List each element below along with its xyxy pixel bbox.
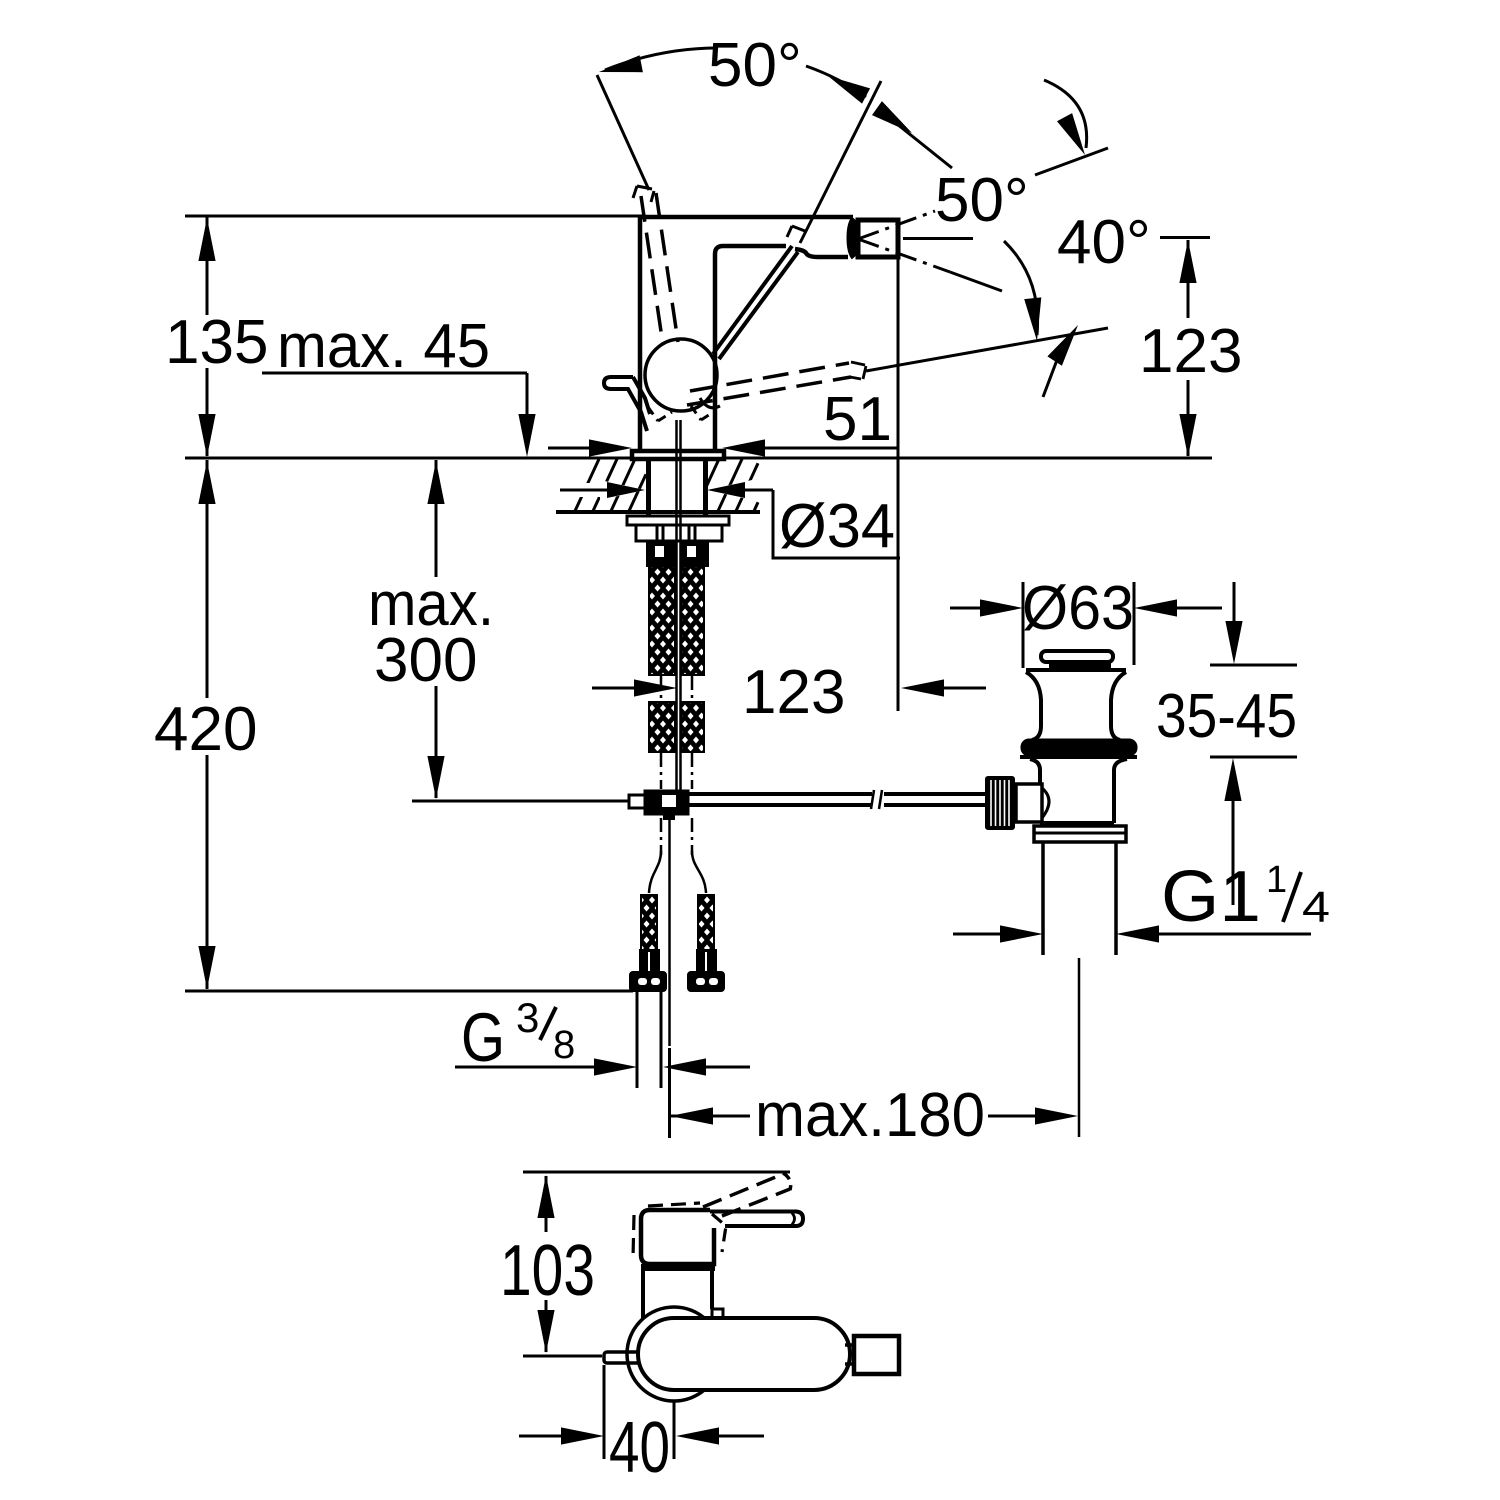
svg-text:300: 300 <box>374 626 477 695</box>
T-connector block <box>645 791 688 814</box>
dim 103 <box>545 1176 548 1232</box>
valve bell top plate <box>1026 668 1126 672</box>
bowtie arrowhead down-right <box>872 101 912 133</box>
spray horizontal axis line <box>903 237 973 240</box>
svg-text:50°: 50° <box>708 31 802 100</box>
spray head rectangle <box>858 220 898 257</box>
spray-down dash-dot line <box>858 239 950 272</box>
svg-text:123: 123 <box>742 658 845 727</box>
40 degree small up arrow <box>1047 325 1078 366</box>
svg-text:G1: G1 <box>1161 857 1261 937</box>
valve body bottom coupling <box>1040 821 1114 825</box>
lever rod lower arc detail <box>700 398 720 408</box>
svg-text:50°: 50° <box>935 166 1029 235</box>
bottom view: dashed handle rod <box>703 1174 783 1207</box>
svg-text:123: 123 <box>1139 317 1242 386</box>
first 50 degree arc right part <box>806 66 866 97</box>
drain tailpipe G1 1/4 <box>1041 842 1045 955</box>
dim 51 (flange width) <box>548 447 594 450</box>
G3/8 threaded pipe <box>636 991 639 1088</box>
lower hose collars <box>640 950 659 973</box>
valve bell body <box>1026 672 1041 740</box>
40 degree arc <box>1004 241 1038 335</box>
rubber seal O-ring <box>1022 740 1136 755</box>
T-connector left cap <box>629 795 645 808</box>
dashed lever down cap <box>850 362 866 379</box>
solid lever axis extension <box>800 81 881 243</box>
bottom view: stadium body <box>638 1318 850 1390</box>
bottom view lower extension line <box>523 1355 602 1358</box>
svg-text:40: 40 <box>609 1408 670 1488</box>
horizontal pop-up rod <box>688 792 872 796</box>
dim G1 1/4 <box>953 933 1004 936</box>
faucet body outline <box>640 217 853 452</box>
bottom view: solid spout rod <box>710 1212 803 1227</box>
bottom view top extension line <box>523 1171 790 1174</box>
side port body <box>1016 784 1042 822</box>
spray-up dash-dot line <box>858 211 935 239</box>
bottom reference line (420 end) <box>185 990 633 993</box>
svg-text:420: 420 <box>154 695 257 764</box>
braided hose second section right <box>681 702 704 752</box>
base flange <box>632 451 724 459</box>
down-lever axis extension <box>866 328 1108 371</box>
svg-text:51: 51 <box>823 385 892 454</box>
bottom view: thick separator bar <box>641 1264 715 1271</box>
dim G 3/8 <box>455 1066 599 1069</box>
bottom view: handle cartridge solid box <box>641 1210 714 1264</box>
pull rod between hoses <box>675 420 678 791</box>
dim max.180 <box>668 1048 671 1138</box>
knurled knob <box>986 777 1014 829</box>
pivot ball <box>645 339 717 411</box>
bottom view: outlet neck <box>845 1343 856 1347</box>
svg-text:max.180: max.180 <box>755 1081 985 1150</box>
dashed lever (down position) <box>690 363 849 391</box>
hose centerline dash-dots in gap <box>660 676 663 700</box>
flange below seal <box>1020 755 1137 759</box>
bottom view: cartridge dashed offset outline <box>648 1203 700 1206</box>
counter bottom line <box>556 510 760 514</box>
dim 135 <box>206 217 209 315</box>
bottom view: right step <box>712 1309 723 1320</box>
dashed lever (up position) <box>641 196 663 345</box>
dim 123 horizontal <box>592 687 640 690</box>
locknut <box>636 525 722 541</box>
hose end nuts G3/8 <box>630 972 666 991</box>
dim 420 <box>206 460 209 698</box>
lower braided hose left <box>641 895 657 953</box>
braided hose upper left <box>649 566 675 675</box>
braided hose second section left <box>649 702 675 752</box>
dim diameter 63 <box>1022 582 1025 668</box>
shank <box>646 458 651 516</box>
dim max. 300 <box>435 460 438 577</box>
bottom view: left nib <box>604 1352 640 1363</box>
dim 40 <box>603 1365 606 1459</box>
svg-text:Ø63: Ø63 <box>1022 574 1134 643</box>
second 50 degree arc right segment <box>1044 80 1087 148</box>
svg-text:35-45: 35-45 <box>1156 682 1297 751</box>
hose curves to lower braids <box>649 851 661 893</box>
counter top line <box>185 457 1212 460</box>
braided hose upper right <box>681 566 704 675</box>
temperature stop hook on body left <box>604 377 647 431</box>
svg-text:max. 45: max. 45 <box>277 312 490 381</box>
dim diameter 34 <box>558 483 614 497</box>
spout underside step <box>795 249 848 257</box>
bottom view: rear circle <box>627 1307 721 1401</box>
bottom view: outlet square <box>854 1336 899 1374</box>
svg-text:1: 1 <box>1266 859 1287 901</box>
counter hatching <box>575 459 599 511</box>
svg-text:135: 135 <box>165 308 268 377</box>
lower braided hose right <box>698 895 714 953</box>
centerline below T-connector <box>668 818 671 1046</box>
hose crimp fittings <box>647 542 676 566</box>
svg-text:3: 3 <box>516 994 539 1041</box>
lever tip dash-dot cap <box>787 226 805 237</box>
aerator crescent <box>848 218 861 258</box>
T-connector bottom stub <box>664 814 674 819</box>
washer <box>627 516 729 525</box>
svg-text:8: 8 <box>553 1023 575 1067</box>
drain centerline <box>1078 958 1081 1137</box>
svg-text:4: 4 <box>1302 883 1330 932</box>
bottom view: body column <box>641 1271 645 1318</box>
svg-text:G: G <box>461 999 505 1076</box>
hose centerlines below second braid <box>660 753 663 789</box>
solid lever rod <box>713 246 792 354</box>
top reference line (spout top level) <box>185 215 645 218</box>
dashed lever up cap <box>633 186 654 202</box>
up-lever axis extension line <box>597 75 649 190</box>
dashed chevron marks below ball <box>648 407 672 421</box>
svg-text:40°: 40° <box>1057 208 1151 277</box>
svg-text:Ø34: Ø34 <box>779 492 895 561</box>
dim 35-45 <box>1233 582 1236 624</box>
svg-text:103: 103 <box>500 1231 595 1311</box>
first 50 degree arc left part <box>605 48 718 70</box>
dim 123 right vertical <box>1160 236 1210 239</box>
rod break marks <box>871 790 874 809</box>
drain valve push cap <box>1041 651 1113 662</box>
hose centerlines below T <box>660 818 663 855</box>
bowtie arrowhead up-left <box>828 76 870 104</box>
